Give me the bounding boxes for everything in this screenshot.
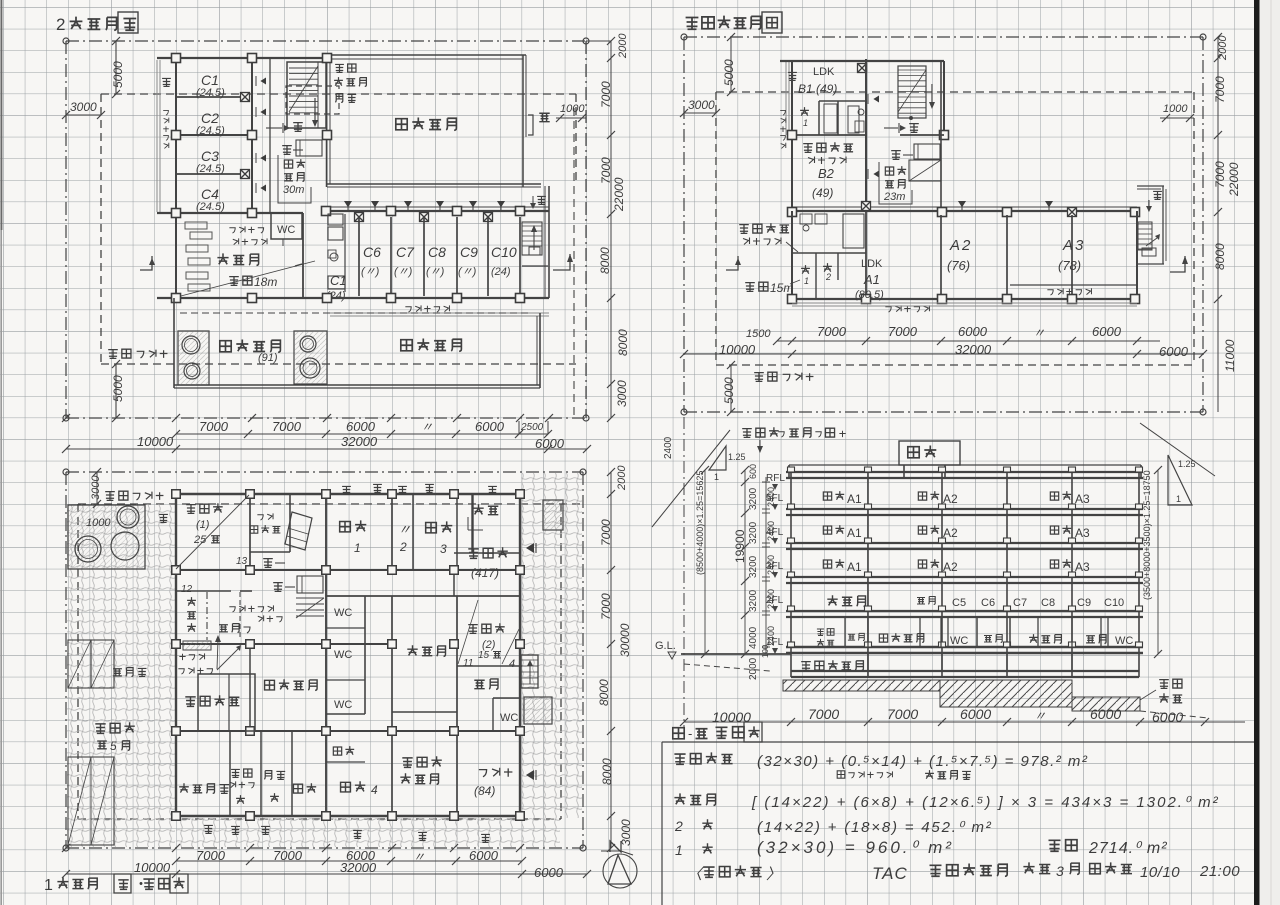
svg-text:10000: 10000 [719,342,756,357]
AC outdoor unit labels [335,64,344,72]
svg-text:6000: 6000 [534,865,564,880]
water tank room label [179,783,189,792]
bou labels bottom BL [204,825,213,833]
dim 5000 TR top-left [730,37,732,92]
svg-text:21:00: 21:00 [1199,863,1240,880]
you labels A1 [801,265,810,274]
2F room labels [827,595,837,605]
tokki BL2 [273,583,283,592]
corridor door triangles [260,78,266,85]
interior verticals BL [249,494,251,570]
mail shelf [183,641,211,650]
5F room labels [823,492,831,500]
svg-text:(24.5): (24.5) [196,201,225,213]
dims bottom TL ticks [62,414,70,422]
svg-text:6000: 6000 [1092,324,1122,339]
svg-text:A1: A1 [847,492,862,506]
svg-text:7000: 7000 [599,157,613,184]
svg-text:8000: 8000 [600,758,614,785]
parapet top line [789,464,1141,466]
A3 balcony line [1010,284,1137,286]
roof green label 2 [401,340,412,351]
ground slab [786,646,1143,648]
AC dashed enclosure [286,86,339,114]
svg-text:32000: 32000 [340,860,377,875]
svg-text:2714.⁰ m²: 2714.⁰ m² [1088,840,1168,857]
left scan edge [0,0,2,905]
svg-text:(24): (24) [491,266,511,278]
bou TR east [1153,191,1162,199]
svg-text:19900: 19900 [733,529,747,563]
svg-text:1FL: 1FL [766,637,784,648]
svg-text:6000: 6000 [469,848,499,863]
choufuku 15m label [745,283,755,292]
svg-text:C2: C2 [201,110,219,126]
svg-text:3200: 3200 [748,589,759,612]
columns grid BL [172,490,181,499]
svg-text:6000: 6000 [475,419,505,434]
svg-text:1: 1 [44,877,53,894]
calc line2 [674,793,685,804]
ramp NW [285,512,312,550]
apartment strip roof edge [327,183,541,185]
svg-text:5000: 5000 [111,61,125,88]
sight arrows [217,640,218,669]
svg-text:A2: A2 [949,237,972,254]
svg-text:WC: WC [1115,635,1133,647]
svg-text:(78): (78) [1058,258,1081,273]
bed rect [296,140,322,156]
wheelchair stalls [68,640,91,688]
compass N arrow [601,850,621,852]
walk bracket TR [879,162,912,204]
svg-text:3000: 3000 [688,98,715,112]
svg-text:G.L.: G.L. [655,640,676,652]
stairbay east wall [940,61,942,211]
unit C1 bath fixtures [328,214,343,225]
svg-text:8000: 8000 [616,329,630,356]
svg-text:4: 4 [509,658,515,670]
enshou line label TL [108,350,118,359]
svg-text:C1: C1 [330,273,347,288]
mitoshi label [219,625,228,632]
svg-text:〃: 〃 [1034,709,1046,723]
svg-text:LDK: LDK [813,66,835,78]
svg-text:(49): (49) [812,186,833,200]
electric room label [264,771,271,780]
wheelchair room label [407,645,417,655]
balcony label south TR [885,307,891,312]
soil improvement label [1159,680,1169,689]
svg-text:6000: 6000 [1090,706,1121,722]
roof garden label [220,341,231,352]
site boundary dash-dot BL [66,471,583,473]
A1 kitchen fixtures [800,214,812,224]
svg-text:[ (14×22) + (6×8) + (12×6.⁵) ]: [ (14×22) + (6×8) + (12×6.⁵) ] × 3 = 434… [751,794,1220,811]
hisashi eave bracket [528,115,533,135]
school label [468,549,478,558]
apartment partitions [358,217,360,296]
svg-text:3000: 3000 [615,380,629,407]
2F partitions [919,617,921,647]
tokki arrow TR [884,127,898,129]
dim 5000 left bottom [115,364,117,418]
small storage label [333,747,341,755]
parking label [95,724,105,733]
right dims BL [610,472,612,848]
svg-text:(91): (91) [258,352,278,364]
svg-text:5: 5 [110,739,117,753]
total [1049,840,1061,851]
tokki arrow NW [266,127,282,129]
enshou label TR [754,373,764,382]
A1 interior [792,252,866,254]
basement walls [867,653,869,671]
svg-text:3000: 3000 [70,100,97,114]
section cut marks mid [140,256,152,270]
svg-text:(32×30) + (0.⁵×14) + (1.⁵×7.⁵): (32×30) + (0.⁵×14) + (1.⁵×7.⁵) = 978.² m… [757,753,1088,770]
walk distance 30m label [284,160,292,168]
B2 labels [803,144,813,153]
fire pump room label [231,769,240,777]
ground hatch left [783,680,940,691]
svg-text:(〃): (〃) [394,266,413,278]
svg-text:WC: WC [950,635,968,647]
right slope diagonal [1140,423,1215,476]
svg-text:C9: C9 [1077,597,1091,609]
roof greening area outline [328,54,526,56]
svg-text:6000: 6000 [960,706,991,722]
svg-text:8000: 8000 [1213,243,1227,270]
dim 5000 TR bottom-left [730,365,732,412]
fire-spread dashed line TL [101,93,576,95]
svg-text:TAC: TAC [872,864,908,883]
entrance stair BL [296,598,324,616]
svg-text:32000: 32000 [955,342,992,357]
svg-text:3: 3 [1056,863,1064,879]
svg-text:23m: 23m [883,191,905,203]
C-block balcony line west [156,60,158,212]
svg-text:(〃): (〃) [426,266,445,278]
WC room NW [271,213,302,239]
right dim formula [1157,470,1159,654]
apartment strip top wall [326,210,549,212]
svg-text:7000: 7000 [199,419,229,434]
svg-text:WC: WC [334,607,352,619]
apartment east wall [548,186,550,298]
svg-text:A2: A2 [943,560,958,574]
svg-text:10000: 10000 [134,860,171,875]
classroom partitions BL [412,494,414,570]
C-block outer walls [157,57,331,59]
bottom dims section [684,721,1245,723]
svg-text:15m: 15m [770,281,793,295]
svg-text:〃: 〃 [421,420,433,434]
interior wall y712 [392,711,457,713]
kitchen walls BL [457,665,522,667]
svg-text:A3: A3 [1075,492,1090,506]
B1 interior partitions [819,100,866,102]
dashed eave line right [573,108,575,418]
interior wall y596 [326,595,520,597]
svg-text:1000: 1000 [560,103,585,115]
planter west [178,331,209,385]
dim 5000 left top [115,41,117,94]
ground line [681,653,791,655]
svg-text:4FL: 4FL [766,527,784,538]
svg-text:1: 1 [803,118,808,128]
bou labels top BL [159,514,168,522]
svg-text:600: 600 [748,464,758,479]
right dim lines TL [610,41,612,418]
vent triangles [344,201,352,207]
building outer walls BL [176,493,520,495]
svg-text:C1: C1 [201,72,219,88]
windbreak room [176,590,231,592]
GL dashed [684,664,770,671]
mail corner [179,654,185,660]
svg-text:7000: 7000 [273,848,303,863]
section title [673,728,684,739]
svg-text:1000: 1000 [86,517,111,529]
svg-text:(80.5): (80.5) [855,289,884,301]
dims bottom BL ticks [62,844,70,852]
common room label [217,253,228,264]
svg-text:2000: 2000 [617,33,629,59]
svg-text:A1: A1 [847,526,862,540]
walk 23m TR [885,167,893,175]
A block columns top [788,208,797,217]
svg-text:(84): (84) [474,784,495,798]
C room partitions [176,96,245,98]
ground dashed right [1140,711,1208,718]
svg-text:3FL: 3FL [766,561,784,572]
storage2 label [293,784,302,793]
A block top wall [792,210,1137,212]
svg-text:2000: 2000 [1217,35,1229,61]
svg-text:1: 1 [675,842,683,858]
interior wall y570 [176,569,520,571]
partition x-boxes [241,93,250,102]
svg-text:5000: 5000 [111,375,125,402]
calc area frame [662,741,1254,743]
common room wall east [302,213,304,298]
1F interior walls section [844,617,846,647]
svg-text:2: 2 [56,15,65,34]
svg-text:A1: A1 [847,560,862,574]
svg-text:A1: A1 [863,272,880,287]
svg-text:1.25: 1.25 [1178,459,1196,469]
roof garden inner dashed [180,312,530,314]
svg-text:3200: 3200 [748,555,759,578]
svg-text:30m: 30m [283,184,304,196]
svg-text:WC: WC [334,649,352,661]
svg-text:1000: 1000 [1163,103,1188,115]
reception label [473,504,483,514]
svg-text:11: 11 [463,658,473,669]
svg-text:1: 1 [1176,494,1181,504]
dims bottom TL dimline2 [66,448,587,450]
svg-text:8000: 8000 [598,247,612,274]
walk diagonal line [177,261,315,297]
apartment bottom wall [157,297,549,299]
balcony south lines [330,312,549,314]
interior wall y731 [176,730,520,732]
svg-text:2: 2 [674,818,683,834]
svg-text:1: 1 [354,541,361,555]
svg-text:C4: C4 [201,186,219,202]
svg-text:22000: 22000 [612,177,626,212]
east stair apartment [522,222,542,255]
bou label west [162,78,171,86]
columns C-block [172,54,181,63]
3F room labels [823,560,831,568]
svg-text:6000: 6000 [1152,709,1183,725]
bicycle parking 2 [468,625,478,634]
svg-text:7000: 7000 [599,519,613,546]
svg-text:C6: C6 [981,597,995,609]
svg-text:2400: 2400 [663,436,674,459]
svg-text:(〃): (〃) [458,266,477,278]
svg-text:7000: 7000 [196,848,226,863]
svg-text:〉: 〉 [766,866,781,883]
max height label [742,429,752,438]
slab column stubs [788,467,795,472]
svg-text:(24.5): (24.5) [196,125,225,137]
svg-text:A3: A3 [1062,237,1085,254]
planter NW site [68,505,145,569]
calc line1 sub [837,771,845,778]
svg-text:1: 1 [714,472,719,482]
right dims TR [1217,37,1219,412]
svg-text:12: 12 [181,584,193,595]
svg-text:6000: 6000 [1159,344,1189,359]
svg-text:C8: C8 [1041,597,1055,609]
svg-text:(24.5): (24.5) [196,87,225,99]
svg-text:5000: 5000 [722,377,736,404]
dim 3000 site top [96,472,98,504]
door B2 [873,171,879,178]
fire water tank label [801,662,811,671]
svg-text:C6: C6 [363,244,381,260]
svg-text:(76): (76) [947,258,970,273]
zaitaku label outside [739,225,749,234]
left slope triangle [709,446,726,470]
svg-text:A3: A3 [1075,560,1090,574]
svg-text:B1 (49): B1 (49) [798,82,837,96]
svg-text:C10: C10 [1104,597,1124,609]
svg-text:WC: WC [500,712,518,724]
left dim chains section [704,470,706,654]
bed rect TR [914,144,940,159]
svg-text:C10: C10 [491,244,517,260]
svg-text:18m: 18m [254,275,277,289]
stair shaft east [521,655,538,688]
section marks TR [726,256,738,270]
storage room label [265,680,275,690]
svg-text:7000: 7000 [599,81,613,108]
parking hatch texture [67,504,175,847]
manager room [198,674,255,731]
svg-text:6000: 6000 [346,419,376,434]
site boundary dash-dot TR [684,36,1203,38]
interior wall y644 [176,643,392,645]
fire spread dashed TR [716,91,1194,93]
kitchen corner label [229,228,235,233]
apartment columns top [322,207,331,216]
balcony label south [405,307,411,312]
right slope triangle [1164,452,1196,511]
svg-text:3000: 3000 [619,819,633,846]
svg-text:5000: 5000 [722,59,736,86]
svg-text:C3: C3 [201,148,219,164]
lower stair TR [909,160,941,181]
svg-text:7000: 7000 [888,324,918,339]
svg-text:30000: 30000 [618,623,632,657]
svg-text:WC: WC [277,224,295,236]
svg-text:2000: 2000 [748,657,759,680]
svg-text:1: 1 [804,276,809,286]
section columns [790,472,792,677]
planter east [294,331,327,384]
dims bottom TL dimline1 [176,433,548,435]
svg-text:(3500+8000+3500)×1.25=18750: (3500+8000+3500)×1.25=18750 [1142,470,1152,600]
svg-text:2: 2 [825,272,831,282]
roof green label [396,119,407,130]
vents A block [958,201,966,207]
svg-text:32000: 32000 [341,434,378,449]
common room shelves [185,222,207,229]
basement bottom slab [791,670,1139,672]
svg-text:7000: 7000 [272,419,302,434]
svg-text:RFL: RFL [766,473,785,484]
stair down arrow [314,98,316,122]
svg-text:-: - [688,726,692,741]
dim 3000 left [66,114,101,116]
svg-text:WC: WC [334,699,352,711]
afterschool label [402,758,412,767]
svg-text:(〃): (〃) [361,266,380,278]
svg-text:7000: 7000 [1213,76,1227,103]
kitchen label BL [474,680,484,688]
roof garden block outline [173,298,175,388]
svg-text:(417): (417) [471,566,499,580]
svg-text:2500: 2500 [520,422,544,433]
site boundary dash-dot TL [66,40,586,42]
svg-text:A2: A2 [943,492,958,506]
planter E site [524,697,552,724]
svg-text:〃: 〃 [1033,326,1045,340]
svg-text:(8500+4000)×1.25=15625: (8500+4000)×1.25=15625 [695,471,705,575]
svg-text:5FL: 5FL [766,493,784,504]
bicycle parking 1 label [186,505,196,514]
svg-text:LDK: LDK [861,258,883,270]
svg-text:B2: B2 [818,166,835,181]
entrance hall labels [229,607,235,612]
left slope diagonal [652,430,730,527]
svg-text:7000: 7000 [599,593,613,620]
stair bay TR [943,61,945,135]
bou TR west [788,72,797,80]
svg-text:(32×30) = 960.⁰ m²: (32×30) = 960.⁰ m² [757,838,954,857]
svg-text:〃: 〃 [413,850,425,864]
svg-text:11000: 11000 [1223,339,1237,372]
bicycle diagonal [176,495,249,569]
penthouse [899,441,960,465]
tokki 2 TR [891,151,901,160]
ground hatch mid deep [940,680,1072,707]
svg-text:(14×22) + (18×8) = 452.⁰ m²: (14×22) + (18×8) = 452.⁰ m² [757,819,993,836]
